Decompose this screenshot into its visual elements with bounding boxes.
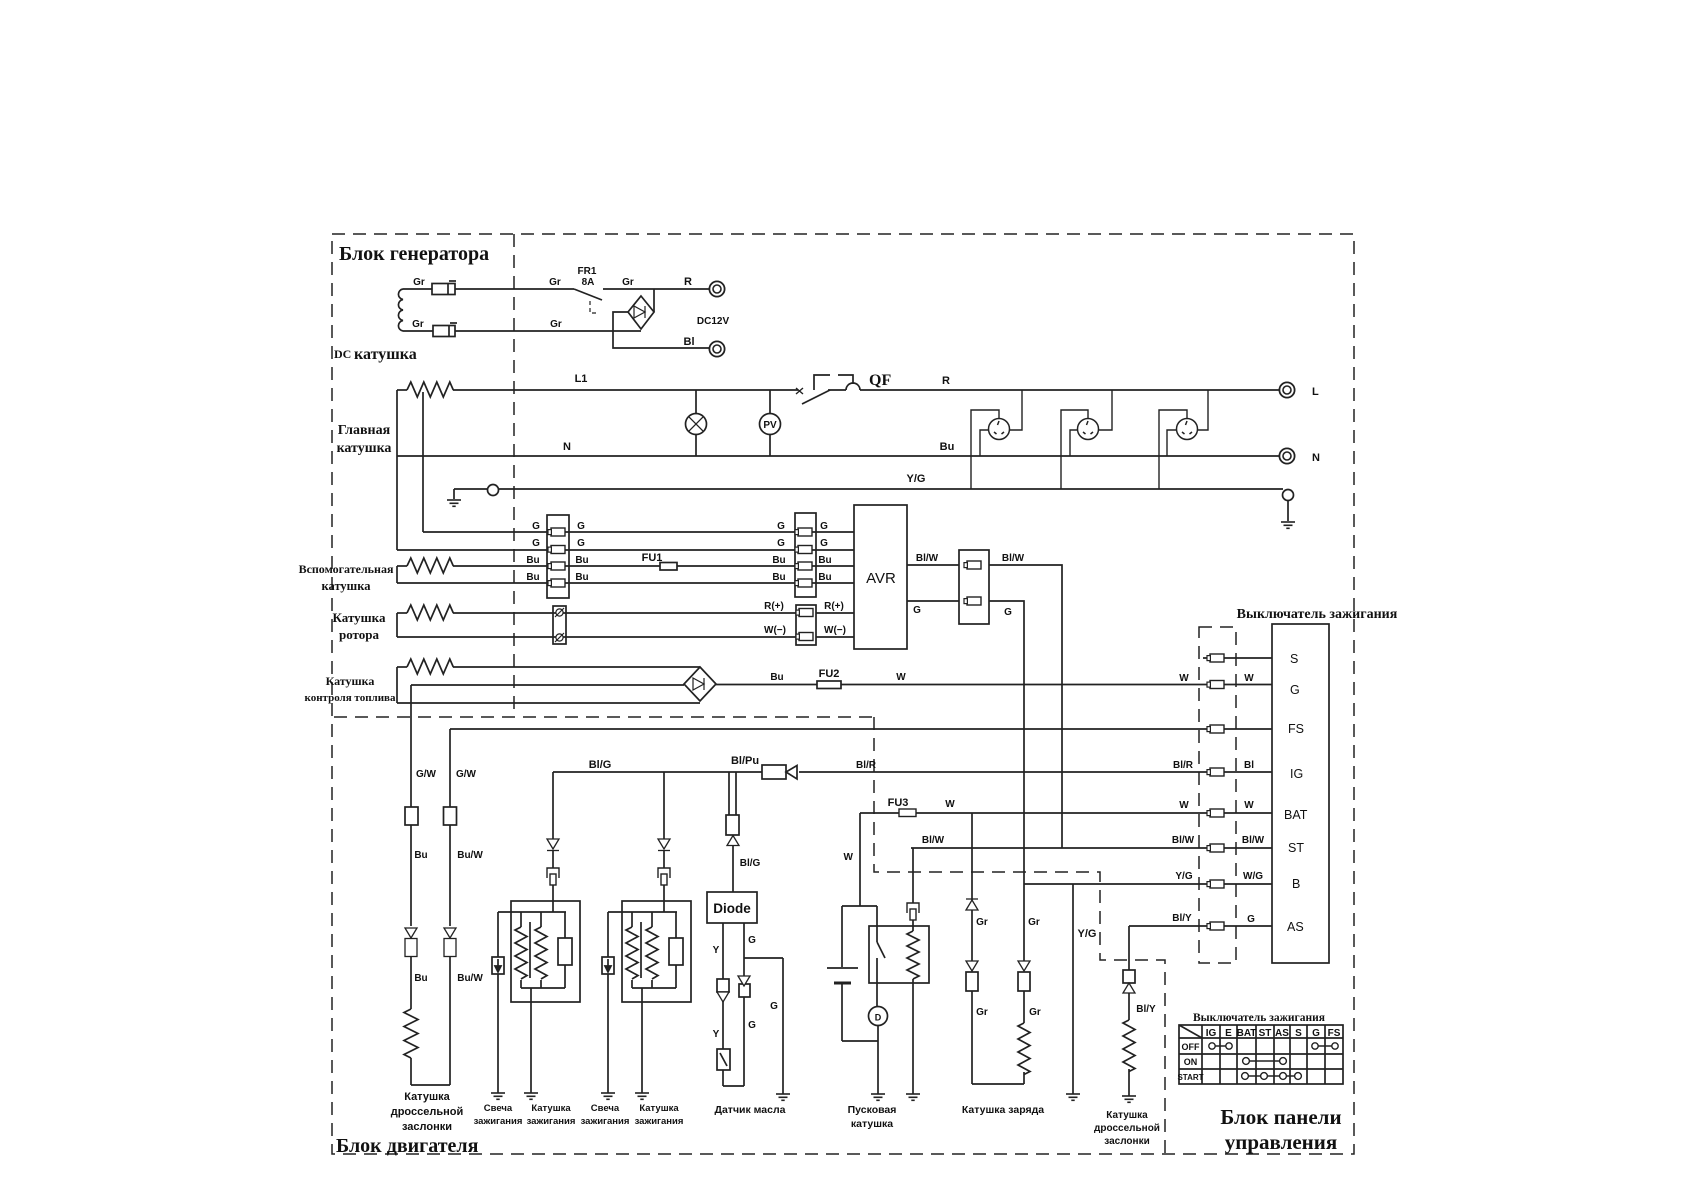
svg-text:BAT: BAT — [1284, 808, 1308, 822]
svg-text:DC: DC — [334, 347, 351, 361]
svg-text:Bl: Bl — [1244, 760, 1254, 771]
svg-text:ротора: ротора — [339, 627, 380, 642]
svg-text:катушка: катушка — [322, 579, 372, 593]
svg-text:G: G — [913, 605, 921, 616]
svg-text:Bl/W: Bl/W — [922, 835, 945, 846]
svg-text:FR1: FR1 — [578, 266, 597, 277]
svg-text:W: W — [1179, 800, 1189, 811]
svg-text:W: W — [1244, 673, 1254, 684]
svg-text:Bu: Bu — [575, 555, 588, 566]
svg-text:W: W — [945, 799, 955, 810]
svg-text:IG: IG — [1206, 1028, 1217, 1039]
svg-text:Блок панели: Блок панели — [1220, 1105, 1341, 1129]
svg-text:Gr: Gr — [1029, 1007, 1041, 1018]
svg-text:Bu: Bu — [940, 441, 955, 453]
svg-text:G: G — [1312, 1028, 1320, 1039]
svg-text:L1: L1 — [575, 373, 588, 385]
svg-text:Bu: Bu — [818, 555, 831, 566]
svg-text:Выключатель зажигания: Выключатель зажигания — [1193, 1012, 1325, 1024]
svg-text:Gr: Gr — [1028, 917, 1040, 928]
svg-text:W: W — [1179, 673, 1189, 684]
svg-text:Свеча: Свеча — [591, 1103, 620, 1114]
svg-text:G: G — [748, 1020, 756, 1031]
svg-text:Y: Y — [713, 945, 720, 956]
svg-text:Катушка: Катушка — [326, 674, 375, 688]
svg-text:катушка: катушка — [851, 1118, 893, 1130]
svg-text:D: D — [875, 1013, 882, 1023]
svg-text:W(−): W(−) — [764, 625, 786, 636]
svg-text:Bu: Bu — [772, 572, 785, 583]
svg-text:FS: FS — [1328, 1028, 1341, 1039]
svg-text:Bu: Bu — [818, 572, 831, 583]
svg-text:Gr: Gr — [412, 319, 424, 330]
svg-text:DC12V: DC12V — [697, 316, 730, 327]
svg-text:Gr: Gr — [976, 1007, 988, 1018]
svg-text:ST: ST — [1288, 841, 1304, 855]
svg-text:G: G — [820, 538, 828, 549]
svg-text:G: G — [532, 538, 540, 549]
svg-text:Bu: Bu — [770, 672, 783, 683]
svg-text:AS: AS — [1275, 1028, 1289, 1039]
svg-text:Блок генератора: Блок генератора — [339, 243, 489, 265]
svg-text:дроссельной: дроссельной — [1094, 1123, 1160, 1134]
svg-text:Катушка: Катушка — [333, 610, 386, 625]
svg-text:Bl: Bl — [684, 336, 695, 348]
svg-text:Датчик масла: Датчик масла — [714, 1104, 785, 1116]
svg-text:Катушка: Катушка — [1106, 1110, 1148, 1121]
svg-text:катушка: катушка — [354, 346, 417, 363]
svg-text:G: G — [1004, 607, 1012, 618]
svg-text:OFF: OFF — [1182, 1042, 1200, 1052]
svg-text:Катушка заряда: Катушка заряда — [962, 1104, 1044, 1116]
svg-text:FS: FS — [1288, 722, 1304, 736]
svg-text:Bl/R: Bl/R — [1173, 760, 1194, 771]
svg-text:Bu/W: Bu/W — [457, 973, 483, 984]
svg-text:G: G — [1290, 683, 1300, 697]
svg-text:W: W — [844, 852, 854, 863]
svg-text:зажигания: зажигания — [474, 1116, 523, 1127]
svg-text:Bu: Bu — [414, 973, 427, 984]
svg-text:W: W — [1244, 800, 1254, 811]
svg-text:Y/G: Y/G — [1175, 871, 1192, 882]
svg-text:Bu: Bu — [526, 572, 539, 583]
svg-text:W(−): W(−) — [824, 625, 846, 636]
svg-text:N: N — [1312, 452, 1320, 464]
svg-text:Gr: Gr — [413, 277, 425, 288]
svg-text:контроля топлива: контроля топлива — [305, 692, 396, 704]
svg-text:ST: ST — [1259, 1028, 1272, 1039]
svg-text:Bl/Pu: Bl/Pu — [731, 755, 759, 767]
svg-text:ON: ON — [1184, 1057, 1198, 1067]
svg-text:IG: IG — [1290, 767, 1303, 781]
svg-text:Bu: Bu — [414, 850, 427, 861]
svg-text:Bl/W: Bl/W — [1172, 835, 1195, 846]
svg-text:Bu: Bu — [575, 572, 588, 583]
svg-text:Катушка: Катушка — [404, 1091, 450, 1103]
svg-text:G/W: G/W — [416, 769, 437, 780]
svg-text:G/W: G/W — [456, 769, 477, 780]
svg-text:G: G — [777, 521, 785, 532]
svg-text:управления: управления — [1225, 1130, 1338, 1154]
svg-text:Bu: Bu — [526, 555, 539, 566]
svg-text:Bl/W: Bl/W — [1242, 835, 1265, 846]
svg-text:G: G — [1247, 914, 1255, 925]
svg-text:Катушка: Катушка — [639, 1103, 679, 1114]
svg-text:Bl/G: Bl/G — [589, 759, 612, 771]
svg-text:Bl/Y: Bl/Y — [1172, 913, 1192, 924]
svg-text:G: G — [777, 538, 785, 549]
svg-text:Gr: Gr — [550, 319, 562, 330]
svg-text:зажигания: зажигания — [581, 1116, 630, 1127]
svg-text:W/G: W/G — [1243, 871, 1263, 882]
svg-text:дроссельной: дроссельной — [391, 1106, 464, 1118]
svg-text:START: START — [1177, 1073, 1203, 1082]
svg-text:PV: PV — [763, 420, 777, 431]
svg-text:Главная: Главная — [338, 423, 391, 438]
svg-text:Свеча: Свеча — [484, 1103, 513, 1114]
svg-text:заслонки: заслонки — [402, 1121, 452, 1133]
svg-text:Y: Y — [713, 1029, 720, 1040]
svg-text:FU3: FU3 — [888, 797, 909, 809]
svg-text:G: G — [748, 935, 756, 946]
svg-text:Катушка: Катушка — [531, 1103, 571, 1114]
svg-text:AVR: AVR — [866, 570, 896, 587]
svg-text:E: E — [1225, 1028, 1232, 1039]
svg-text:BAT: BAT — [1237, 1028, 1257, 1039]
svg-text:G: G — [577, 538, 585, 549]
svg-text:AS: AS — [1287, 920, 1304, 934]
svg-text:S: S — [1295, 1028, 1302, 1039]
svg-text:G: G — [820, 521, 828, 532]
svg-text:Bl/W: Bl/W — [1002, 553, 1025, 564]
svg-text:зажигания: зажигания — [635, 1116, 684, 1127]
svg-text:Diode: Diode — [713, 901, 751, 916]
svg-text:Gr: Gr — [622, 277, 634, 288]
svg-text:Y/G: Y/G — [1078, 928, 1097, 940]
svg-text:QF: QF — [869, 372, 891, 389]
svg-text:Bl/G: Bl/G — [740, 858, 761, 869]
svg-text:Bu: Bu — [772, 555, 785, 566]
svg-text:R(+): R(+) — [764, 601, 784, 612]
svg-text:G: G — [532, 521, 540, 532]
svg-text:Блок двигателя: Блок двигателя — [336, 1135, 479, 1157]
svg-text:FU1: FU1 — [642, 552, 663, 564]
svg-text:B: B — [1292, 877, 1300, 891]
svg-text:Gr: Gr — [976, 917, 988, 928]
svg-text:R: R — [684, 276, 692, 288]
svg-text:G: G — [770, 1001, 778, 1012]
svg-text:R(+): R(+) — [824, 601, 844, 612]
svg-text:Y/G: Y/G — [907, 473, 926, 485]
svg-text:зажигания: зажигания — [527, 1116, 576, 1127]
svg-text:Bl/R: Bl/R — [856, 760, 877, 771]
svg-text:S: S — [1290, 652, 1298, 666]
svg-text:R: R — [942, 375, 950, 387]
svg-text:W: W — [896, 672, 906, 683]
svg-text:FU2: FU2 — [819, 668, 840, 680]
svg-text:заслонки: заслонки — [1104, 1136, 1149, 1147]
svg-text:Bu/W: Bu/W — [457, 850, 483, 861]
svg-text:8A: 8A — [582, 277, 595, 288]
svg-text:Bl/W: Bl/W — [916, 553, 939, 564]
svg-text:Bl/Y: Bl/Y — [1136, 1004, 1156, 1015]
svg-text:Вспомогательная: Вспомогательная — [299, 562, 394, 576]
svg-text:катушка: катушка — [337, 441, 392, 456]
svg-text:Gr: Gr — [549, 277, 561, 288]
svg-text:N: N — [563, 441, 571, 453]
svg-text:Выключатель зажигания: Выключатель зажигания — [1237, 607, 1398, 622]
svg-text:Пусковая: Пусковая — [848, 1104, 897, 1116]
svg-text:L: L — [1312, 386, 1319, 398]
svg-text:G: G — [577, 521, 585, 532]
